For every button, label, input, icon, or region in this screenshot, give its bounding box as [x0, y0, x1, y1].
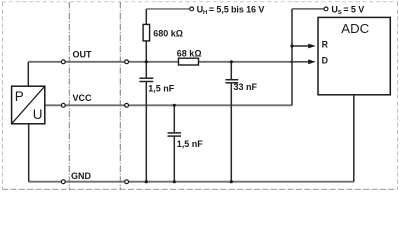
svg-text:OUT: OUT — [73, 50, 93, 60]
svg-text:ADC: ADC — [341, 21, 369, 36]
svg-text:D: D — [322, 55, 328, 65]
svg-text:680 kΩ: 680 kΩ — [153, 28, 183, 38]
svg-text:R: R — [322, 40, 329, 50]
svg-text:U: U — [33, 107, 43, 122]
svg-text:VCC: VCC — [73, 93, 93, 103]
svg-text:33 nF: 33 nF — [234, 82, 258, 92]
svg-text:1,5 nF: 1,5 nF — [148, 83, 175, 93]
svg-text:GND: GND — [71, 171, 92, 181]
svg-text:1,5 nF: 1,5 nF — [177, 139, 204, 149]
svg-text:P: P — [15, 89, 24, 104]
svg-text:68 kΩ: 68 kΩ — [177, 48, 202, 58]
